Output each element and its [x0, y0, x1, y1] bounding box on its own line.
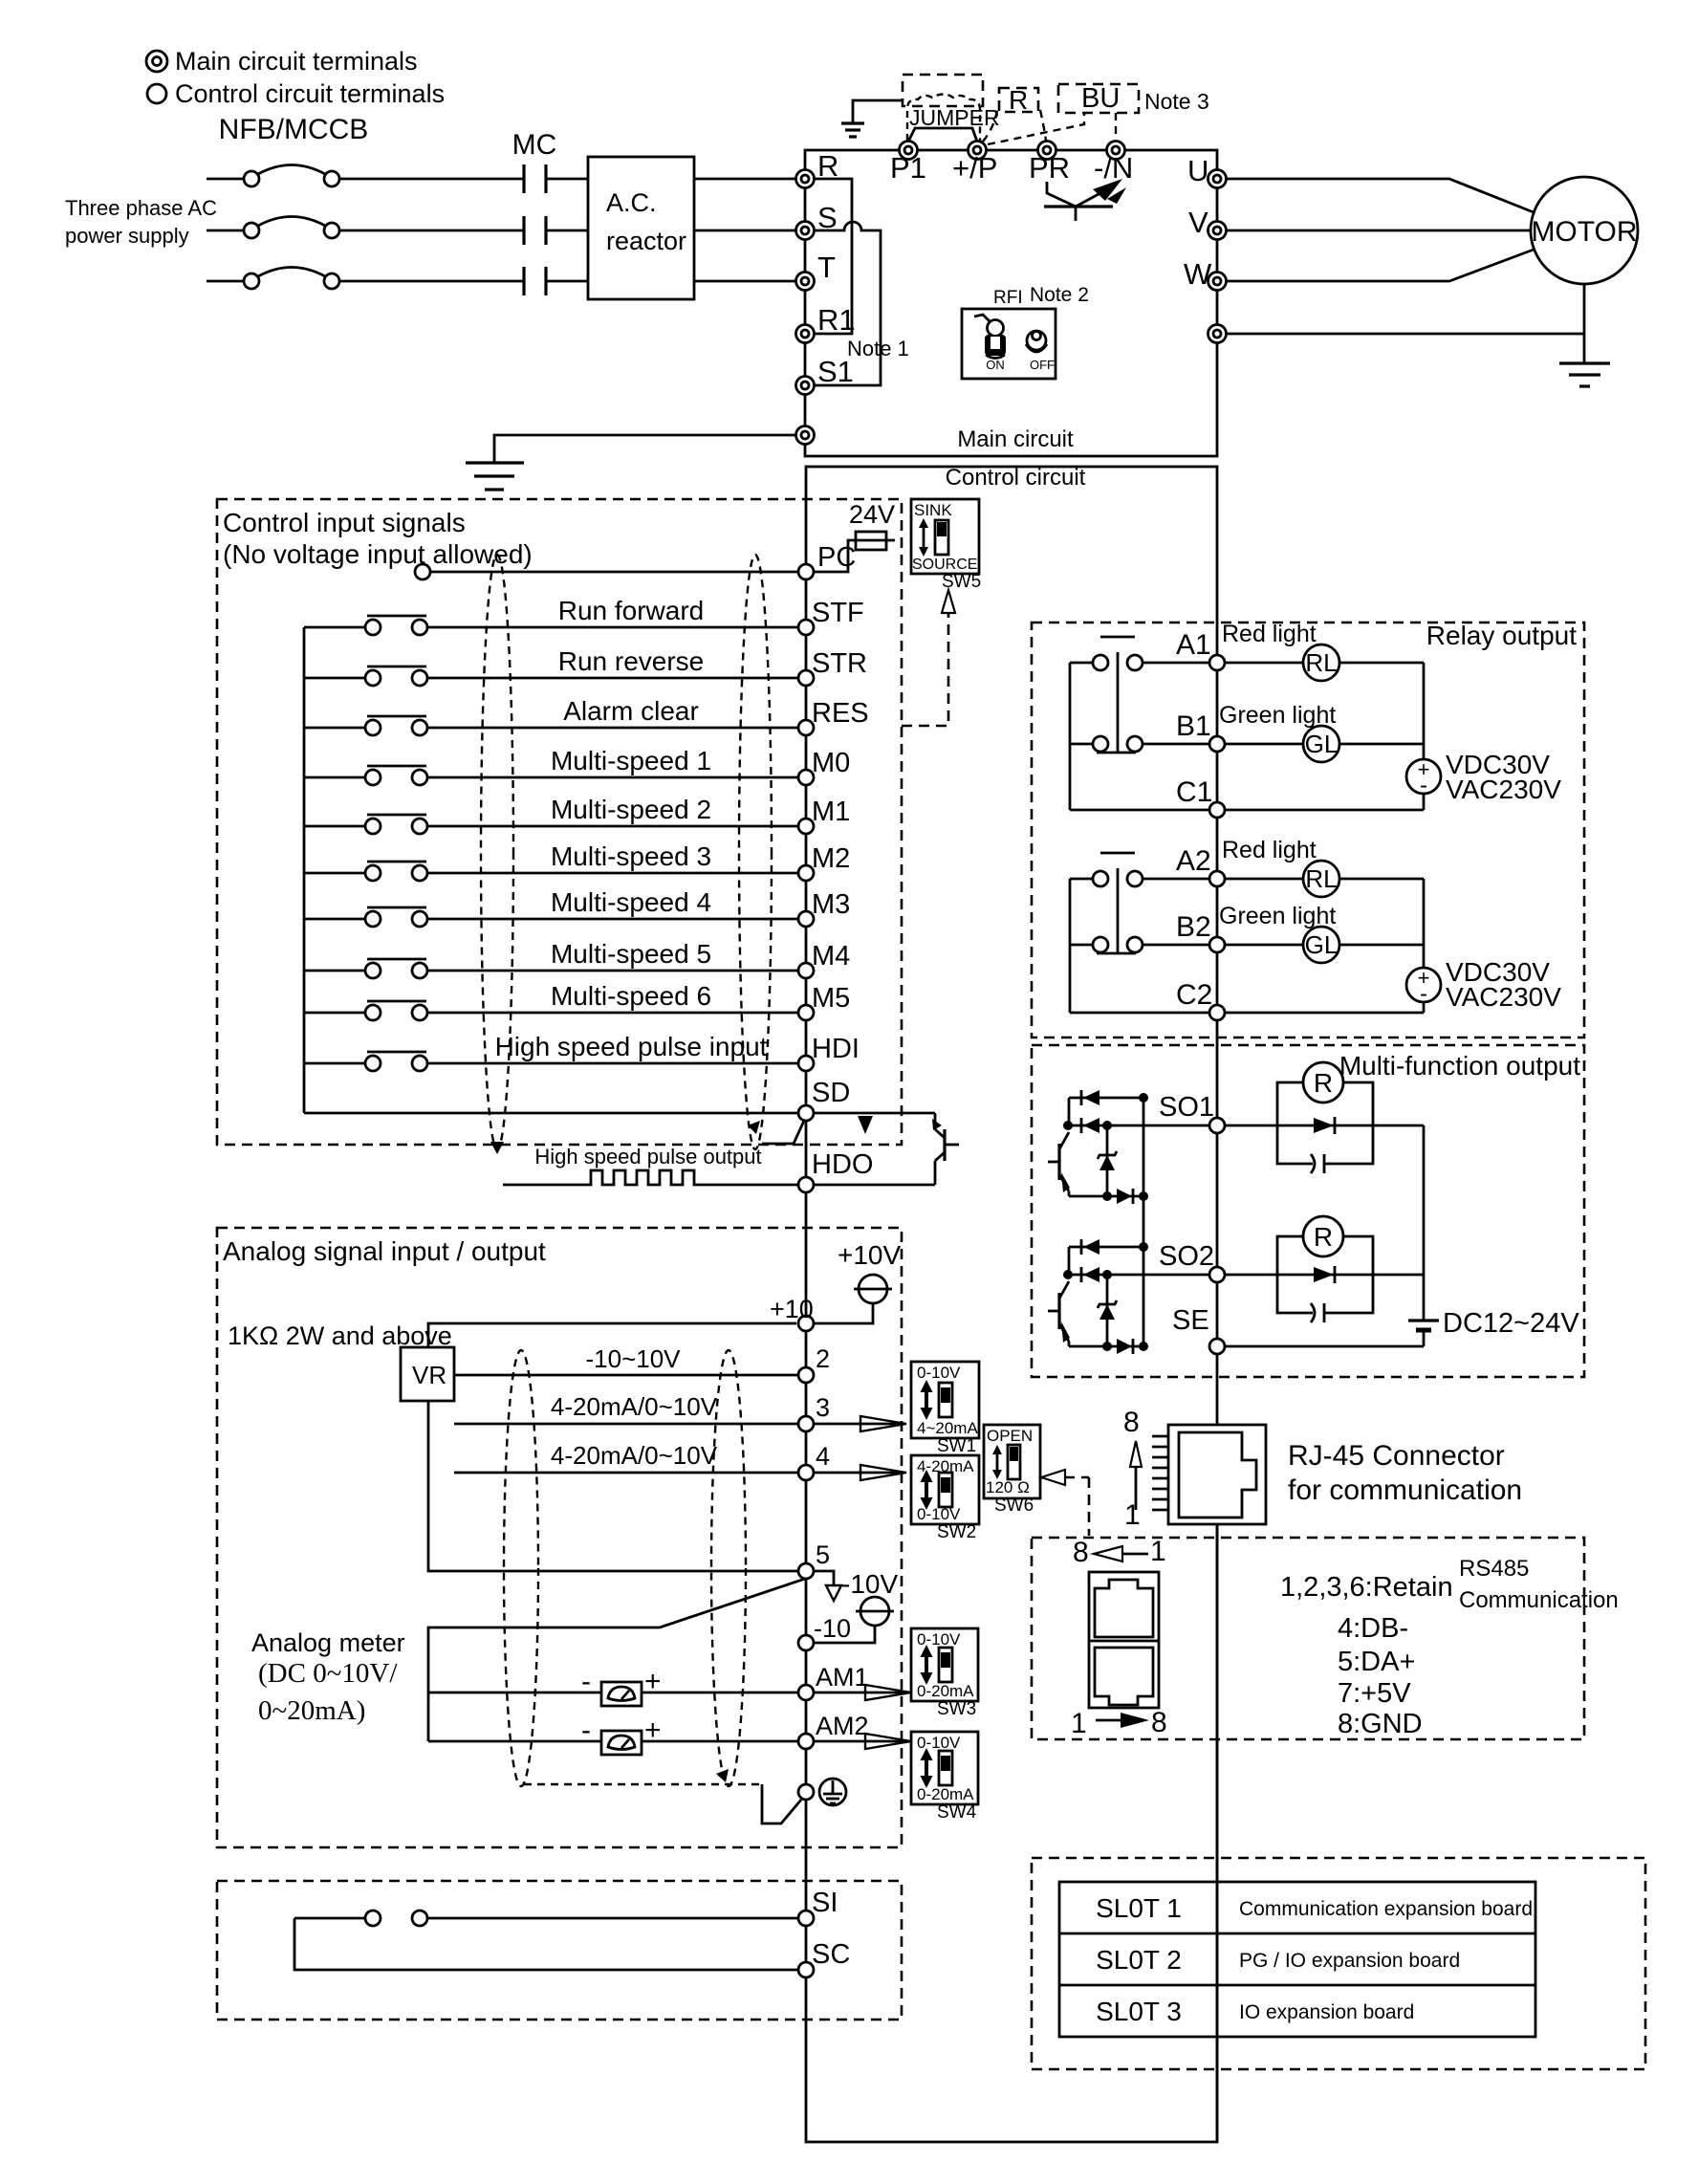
svg-text:4-20mA/0~10V: 4-20mA/0~10V [551, 1392, 718, 1421]
wire SD to HDO transistor [814, 1112, 935, 1115]
svg-text:SO2: SO2 [1159, 1241, 1214, 1272]
svg-text:Note 1: Note 1 [847, 337, 909, 360]
svg-text:SW5: SW5 [942, 572, 981, 592]
svg-text:GL: GL [1305, 930, 1339, 959]
svg-text:SW6: SW6 [994, 1496, 1034, 1516]
terminal M0 [798, 770, 814, 785]
ground symbol top [841, 123, 864, 137]
voltage source 1 [1406, 757, 1441, 798]
terminal PC [798, 564, 814, 579]
analog meter common bracket [428, 1579, 805, 1741]
switch row M5 [304, 1001, 798, 1020]
svg-text:8: 8 [1123, 1407, 1140, 1438]
wire row 3 [454, 1423, 798, 1426]
A.C. reactor [588, 157, 694, 299]
svg-text:1: 1 [1124, 1499, 1141, 1531]
wire MC to reactor row2 [546, 229, 588, 232]
svg-text:MC: MC [512, 129, 557, 161]
svg-text:Main circuit: Main circuit [957, 426, 1074, 452]
control circuit box [806, 467, 1217, 2142]
switch row RES [304, 716, 798, 735]
svg-text:SW3: SW3 [937, 1699, 976, 1719]
svg-text:M3: M3 [812, 889, 850, 920]
right bus through slot table [1216, 1524, 1219, 2142]
breaker NFB pole 3 [207, 268, 339, 290]
svg-text:+10V: +10V [838, 1240, 901, 1270]
svg-text:SW1: SW1 [937, 1436, 976, 1456]
svg-text:Multi-speed 6: Multi-speed 6 [551, 981, 711, 1011]
earth symbol [819, 1779, 846, 1805]
dashed wire +/P to R box [983, 110, 997, 142]
shield ellipse left (analog) [504, 1350, 538, 1786]
svg-text:SW4: SW4 [937, 1802, 977, 1823]
svg-text:1: 1 [1071, 1708, 1087, 1739]
wire pole3 to MC [339, 280, 524, 283]
legend: control circuit terminal symbol [147, 84, 166, 103]
zener diode block 1 [1098, 1125, 1117, 1196]
wire 3 to SW1 with arrow [814, 1416, 906, 1431]
open collector block SO2 top rail diode [1069, 1239, 1148, 1275]
terminal RES [798, 720, 814, 735]
switch SW3 [911, 1628, 978, 1701]
terminal STR [798, 670, 814, 686]
control input signals dashed box [217, 499, 902, 1145]
svg-text:JUMPER: JUMPER [909, 105, 1000, 130]
dashed wire BU to -/N [1115, 113, 1117, 140]
switch row M3 [304, 907, 798, 927]
lamp GL 1 [1226, 726, 1424, 762]
snubber loop 2: resistor R [1277, 1216, 1373, 1275]
svg-text:PC: PC [817, 542, 856, 573]
svg-text:BU: BU [1081, 83, 1120, 114]
terminal SI [798, 1911, 814, 1926]
svg-text:Note 2: Note 2 [1030, 284, 1089, 306]
wire reactor to R [694, 178, 796, 181]
svg-text:HDO: HDO [812, 1149, 873, 1180]
terminal W [1208, 273, 1227, 291]
lamp GL 2 [1226, 927, 1424, 963]
SO1 line diode [1063, 1118, 1208, 1133]
svg-text:0-20mA: 0-20mA [917, 1785, 974, 1803]
svg-text:Control circuit terminals: Control circuit terminals [175, 79, 445, 108]
left bus for switch rows [303, 627, 306, 1113]
terminal R1 [796, 325, 815, 343]
svg-text:M2: M2 [812, 843, 850, 874]
motor ground stem [1583, 284, 1586, 362]
svg-text:OFF: OFF [1030, 358, 1055, 372]
wire loop 2 to right bus [1373, 1274, 1424, 1277]
contactor MC pole 1 [524, 164, 546, 193]
wire reactor to T [694, 280, 796, 283]
brake transistor below PR [1044, 179, 1126, 221]
main circuit box [805, 150, 1217, 456]
dashed wire +/P to BU [988, 113, 1084, 144]
shield ellipse right (analog) [711, 1350, 746, 1786]
terminal 4 [798, 1465, 814, 1480]
svg-text:VR: VR [412, 1361, 446, 1389]
svg-text:Multi-speed 2: Multi-speed 2 [551, 795, 711, 824]
terminal V [1208, 222, 1227, 240]
terminal SO2 [1209, 1267, 1225, 1282]
wire +10 to VR top [428, 1323, 796, 1347]
svg-text:4~20mA: 4~20mA [917, 1419, 978, 1437]
wire S to S1 loop with crossover bump [814, 222, 881, 385]
IGBT transistor block 1 [1048, 1132, 1070, 1196]
ground symbol motor [1559, 363, 1610, 386]
terminal PE right [1208, 325, 1227, 343]
svg-text:4: 4 [816, 1442, 830, 1471]
svg-text:A1: A1 [1176, 629, 1211, 661]
switch row M1 [304, 815, 798, 834]
svg-text:Communication expansion board: Communication expansion board [1239, 1898, 1533, 1920]
brake resistor R dashed box [999, 88, 1038, 112]
shield drain dashed to earth [524, 1783, 762, 1785]
terminal SO1 [1209, 1118, 1225, 1133]
wire MC to reactor row1 [546, 178, 588, 181]
svg-text:U: U [1187, 154, 1208, 187]
SD shield drain step [762, 1121, 804, 1144]
terminal -10 [798, 1635, 814, 1650]
svg-text:+10: +10 [770, 1295, 814, 1323]
wire 4 to SW2 with arrow [814, 1465, 906, 1480]
wire pole2 to MC [339, 229, 524, 232]
switch SW1 [911, 1362, 979, 1438]
wire PE to motor ground [1226, 333, 1584, 336]
SI/SC dashed box [217, 1881, 902, 2020]
analog meter 1 [428, 1666, 662, 1706]
terminal R [796, 170, 815, 188]
relay 1 contact A1 [1070, 637, 1208, 753]
svg-text:Main circuit terminals: Main circuit terminals [175, 47, 418, 76]
svg-text:OPEN: OPEN [987, 1427, 1033, 1445]
svg-text:SE: SE [1172, 1305, 1209, 1336]
wire C1 [1070, 809, 1208, 812]
terminal 3 [798, 1416, 814, 1431]
svg-text:Run forward: Run forward [558, 596, 705, 625]
svg-text:4-20mA/0~10V: 4-20mA/0~10V [551, 1441, 718, 1470]
svg-text:Control input signals: Control input signals [223, 508, 466, 537]
wire R to R1 loop [814, 179, 852, 334]
terminal PE main (bottom left) [796, 426, 815, 445]
svg-text:C1: C1 [1176, 776, 1212, 808]
svg-text:120 Ω: 120 Ω [986, 1478, 1030, 1496]
terminal STF [798, 620, 814, 635]
terminal M3 [798, 911, 814, 927]
wire VR wiper to terminal 2 [454, 1374, 798, 1377]
switch SW2 [911, 1455, 979, 1524]
lamp RL 2 [1226, 861, 1424, 897]
RS485 jack stack [1089, 1572, 1159, 1708]
terminal +10 [798, 1316, 814, 1331]
svg-text:Green light: Green light [1219, 903, 1336, 929]
contactor MC pole 3 [524, 267, 546, 295]
wire meter1 to AM1 [642, 1692, 798, 1694]
svg-text:M0: M0 [812, 748, 850, 778]
wire -10 terminal to source [814, 1626, 875, 1643]
top ground wire to jumper [853, 100, 903, 122]
breaker NFB pole 1 [207, 165, 339, 187]
terminal C2 [1209, 1005, 1225, 1020]
svg-text:RL: RL [1305, 864, 1337, 893]
svg-text:Run reverse: Run reverse [558, 646, 705, 676]
svg-text:DC12~24V: DC12~24V [1443, 1308, 1579, 1339]
wire loop 1 to right bus [1373, 1125, 1424, 1127]
switch row STF [304, 616, 798, 635]
shield drain solid to earth terminal [762, 1784, 801, 1824]
svg-text:0-10V: 0-10V [917, 1364, 961, 1382]
svg-text:VAC230V: VAC230V [1446, 982, 1561, 1012]
terminal HDI [798, 1056, 814, 1071]
contactor MC pole 2 [524, 216, 546, 245]
svg-text:7:+5V: 7:+5V [1338, 1678, 1411, 1709]
svg-text:Multi-speed 5: Multi-speed 5 [551, 939, 711, 969]
wire SD row [304, 1112, 798, 1115]
svg-text:RES: RES [812, 698, 869, 729]
snubber loop 1: series diode [1226, 1117, 1373, 1134]
svg-text:VAC230V: VAC230V [1446, 775, 1561, 804]
svg-text:M1: M1 [812, 797, 850, 827]
svg-text:B1: B1 [1176, 710, 1211, 742]
battery DC12~24V [1408, 1321, 1439, 1346]
terminal B2 [1209, 937, 1225, 952]
shield arrow left bottom (analog) [716, 1769, 729, 1782]
svg-text:A.C.: A.C. [606, 188, 657, 217]
HDO open collector transistor [932, 1113, 959, 1185]
terminal 2 [798, 1367, 814, 1383]
svg-text:-10: -10 [814, 1614, 851, 1643]
shield arrow left bottom [490, 1142, 504, 1154]
svg-text:PR: PR [1029, 151, 1070, 185]
svg-text:SC: SC [812, 1939, 850, 1970]
terminal earth [798, 1784, 814, 1800]
terminal U [1208, 170, 1227, 188]
wire U to motor [1226, 179, 1534, 212]
SLOT table [1059, 1882, 1535, 2037]
bottom rail diode block 2 [1069, 1339, 1148, 1354]
terminal A1 [1209, 655, 1225, 670]
wire reactor to S [694, 229, 796, 232]
svg-text:Alarm clear: Alarm clear [563, 696, 699, 726]
wire VR bottom to terminal 5 [428, 1401, 798, 1571]
bus connecting oc blocks [1143, 1098, 1145, 1346]
svg-text:R: R [1314, 1222, 1333, 1252]
zener diode block 2 [1098, 1275, 1117, 1346]
svg-text:SO1: SO1 [1159, 1092, 1214, 1123]
wire MC to reactor row3 [546, 280, 588, 283]
svg-text:High speed pulse input: High speed pulse input [495, 1032, 768, 1061]
svg-text:-: - [581, 1714, 591, 1746]
svg-text:0~20mA): 0~20mA) [258, 1695, 365, 1726]
terminal A2 [1209, 871, 1225, 886]
relay 1 left bracket [1069, 663, 1072, 810]
RJ-45 pin arrow [1130, 1441, 1142, 1510]
SI switch [294, 1911, 798, 1926]
motor [1531, 177, 1638, 284]
svg-text:Green light: Green light [1219, 702, 1336, 729]
svg-text:0-10V: 0-10V [917, 1734, 961, 1752]
SW5 sink/source switch [911, 499, 979, 574]
switch row M2 [304, 862, 798, 881]
wire pole1 to MC [339, 178, 524, 181]
analog signal dashed box [217, 1228, 902, 1847]
svg-text:GL: GL [1305, 730, 1339, 758]
svg-text:Multi-speed 3: Multi-speed 3 [551, 841, 711, 871]
multi-function right bus [1423, 1125, 1426, 1321]
wire +10 terminal to source [814, 1303, 873, 1323]
open collector block SO1 top rail diode [1069, 1090, 1148, 1125]
switch row M0 [304, 766, 798, 785]
IGBT transistor block 2 [1048, 1281, 1070, 1346]
svg-text:8: 8 [1073, 1537, 1089, 1568]
RS485 bottom 1 arrow 8 [1071, 1707, 1167, 1739]
wire C2 [1070, 1012, 1208, 1015]
svg-text:IO expansion board: IO expansion board [1239, 2001, 1414, 2023]
+10V source circle [854, 1275, 892, 1303]
svg-text:RFI: RFI [993, 288, 1023, 308]
shield ellipse left (control) [481, 555, 513, 1149]
PC external circle [415, 564, 430, 579]
svg-text:SI: SI [812, 1888, 838, 1918]
ground symbol below main box [466, 463, 524, 490]
switch row STR [304, 666, 798, 686]
wire source1 to C1 [1423, 794, 1426, 810]
relay 2 contact B2 [1070, 937, 1208, 952]
dashed arrow to SW6 [1041, 1470, 1089, 1536]
svg-text:Control circuit: Control circuit [946, 465, 1086, 491]
wire row 4 [454, 1472, 798, 1474]
shield arrow right bottom [748, 1121, 760, 1134]
bottom rail diode block 1 [1069, 1189, 1148, 1204]
lamp RL 1 [1226, 644, 1424, 681]
svg-text:M4: M4 [812, 941, 850, 972]
terminal SC [798, 1962, 814, 1977]
SI to SC return wire [294, 1918, 798, 1970]
svg-text:MOTOR: MOTOR [1531, 216, 1637, 248]
-10V source circle [856, 1597, 894, 1626]
terminal AM2 [798, 1734, 814, 1749]
snubber loop 2: capacitor [1277, 1275, 1373, 1322]
terminal HDO [798, 1177, 814, 1192]
terminal SE [1209, 1339, 1225, 1354]
svg-text:-: - [581, 1666, 591, 1697]
terminal 5 [798, 1563, 814, 1579]
relay 1 right bus [1423, 663, 1426, 759]
snubber loop 1: capacitor [1277, 1125, 1373, 1173]
SO2 line diode [1063, 1267, 1208, 1282]
svg-text:M5: M5 [812, 983, 850, 1014]
svg-text:RL: RL [1305, 648, 1337, 677]
svg-text:SL0T 1: SL0T 1 [1096, 1893, 1182, 1923]
RJ-45 connector box [1168, 1425, 1266, 1524]
svg-text:Analog meter: Analog meter [251, 1628, 405, 1657]
svg-text:STR: STR [812, 648, 867, 679]
switch row HDI [304, 1052, 798, 1071]
solid jumper link P1 to +/P [908, 128, 977, 142]
terminal M1 [798, 819, 814, 834]
RFI ON toggle [974, 315, 1006, 359]
terminal C1 [1209, 802, 1225, 818]
RS485 top 8 arrow 1 [1073, 1536, 1166, 1568]
svg-text:ON: ON [986, 358, 1005, 372]
dashed arrow to SW5 [902, 590, 955, 726]
svg-text:+/P: +/P [952, 151, 997, 185]
wire AM1 to SW3 with arrow [814, 1685, 911, 1700]
relay 2 right bus [1423, 879, 1426, 968]
svg-text:8: 8 [1151, 1707, 1167, 1738]
wire PC row [430, 571, 798, 574]
wire AM2 to SW4 with arrow [814, 1734, 911, 1749]
svg-text:1KΩ 2W and above: 1KΩ 2W and above [228, 1321, 452, 1350]
svg-text:2: 2 [816, 1344, 830, 1373]
svg-text:-/N: -/N [1094, 151, 1133, 185]
switch row M4 [304, 959, 798, 978]
svg-text:RJ-45 Connector: RJ-45 Connector [1288, 1440, 1505, 1472]
terminal -/N [1107, 142, 1125, 160]
svg-text:V: V [1188, 206, 1208, 239]
terminal T [796, 273, 815, 291]
svg-text:C2: C2 [1176, 979, 1212, 1011]
svg-text:HDI: HDI [812, 1034, 860, 1064]
switch SW4 [911, 1732, 978, 1804]
jumper dashed outer box [903, 75, 983, 106]
relay 2 left bracket [1069, 879, 1072, 1013]
wire meter2 to AM2 [642, 1740, 798, 1743]
svg-text:0-20mA: 0-20mA [917, 1682, 974, 1700]
svg-text:Note 3: Note 3 [1144, 89, 1209, 114]
potentiometer VR [401, 1347, 454, 1401]
terminal M2 [798, 865, 814, 881]
svg-text:1: 1 [1150, 1536, 1166, 1567]
svg-text:for communication: for communication [1288, 1474, 1522, 1506]
svg-text:1,2,3,6:Retain: 1,2,3,6:Retain [1280, 1572, 1453, 1603]
wire HDO right [814, 1184, 935, 1187]
wire source2 to C2 [1423, 1002, 1426, 1013]
svg-text:(No voltage input allowed): (No voltage input allowed) [223, 539, 533, 569]
terminal P1 [900, 142, 918, 160]
svg-text:(DC 0~10V/: (DC 0~10V/ [258, 1658, 398, 1689]
dashed wire R box to PR [1040, 110, 1046, 141]
svg-text:R1: R1 [817, 303, 856, 337]
terminal S [796, 222, 815, 240]
terminal AM1 [798, 1685, 814, 1700]
svg-text:power supply: power supply [65, 224, 189, 248]
svg-text:0-10V: 0-10V [917, 1630, 961, 1649]
snubber loop 2: series diode [1226, 1266, 1373, 1283]
svg-text:SL0T 3: SL0T 3 [1096, 1997, 1182, 2026]
SD sink arrow [858, 1116, 873, 1134]
svg-text:SW2: SW2 [937, 1522, 976, 1542]
snubber loop 1: resistor R [1277, 1062, 1373, 1125]
svg-text:T: T [817, 251, 836, 284]
terminal PR [1038, 142, 1056, 160]
RS485 dashed box [1032, 1538, 1584, 1739]
svg-text:reactor: reactor [606, 227, 686, 255]
svg-text:SOURCE: SOURCE [912, 557, 977, 573]
HDO pulse waveform [503, 1170, 798, 1185]
svg-text:High speed pulse output: High speed pulse output [534, 1145, 761, 1168]
svg-text:Multi-speed 4: Multi-speed 4 [551, 887, 711, 917]
svg-text:4:DB-: 4:DB- [1338, 1613, 1408, 1644]
svg-text:A2: A2 [1176, 845, 1211, 877]
RFI switch box [962, 309, 1056, 379]
svg-text:PG / IO expansion board: PG / IO expansion board [1239, 1950, 1460, 1972]
svg-text:STF: STF [812, 598, 864, 628]
svg-text:SL0T 2: SL0T 2 [1096, 1945, 1182, 1975]
svg-text:Red light: Red light [1222, 837, 1317, 863]
switch SW6 [984, 1425, 1040, 1498]
svg-text:-10V: -10V [841, 1569, 898, 1599]
svg-text:3: 3 [816, 1393, 830, 1422]
